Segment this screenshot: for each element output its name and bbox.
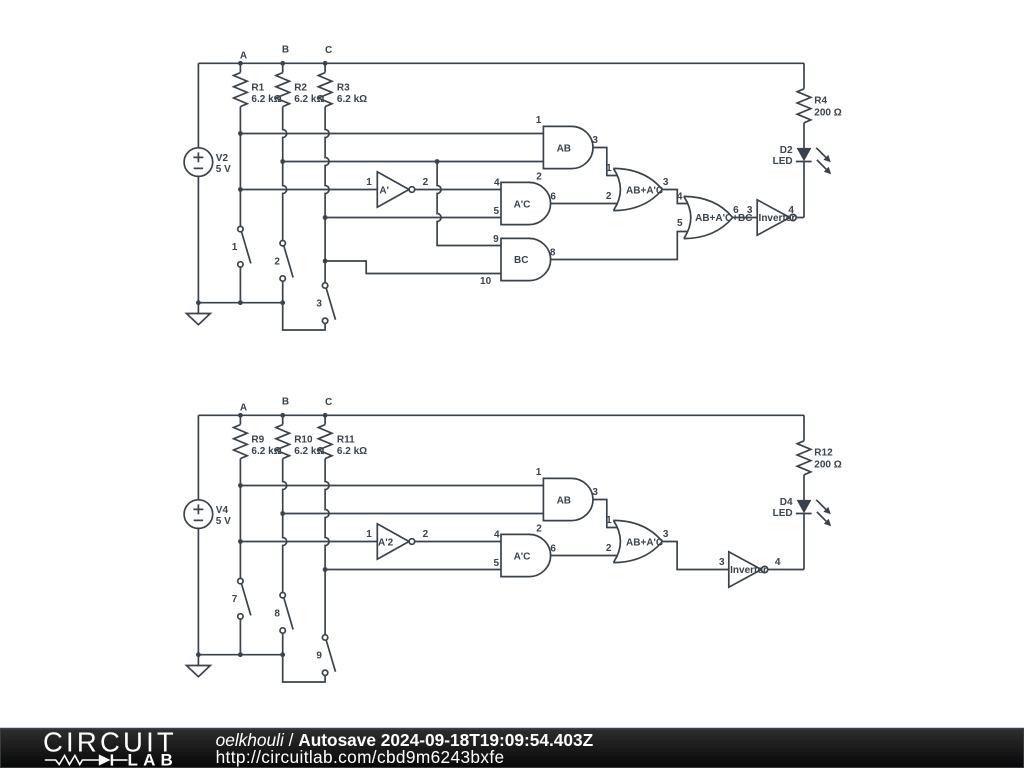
wire ground jog to switch 9 (283, 655, 325, 682)
LED emission arrow 2 (817, 512, 831, 526)
node B junction on rail (280, 413, 285, 418)
wire column C (node C) down with hops (325, 459, 329, 635)
wire node C to A'C input 5 (325, 569, 501, 571)
wire node A to inverter input (240, 189, 377, 191)
node C junction on rail (323, 413, 328, 418)
svg-text:6: 6 (733, 205, 739, 216)
resistor R3 6.2 kΩ (318, 73, 332, 107)
wire column A (node A) down (239, 107, 241, 227)
LED emission arrow 1 (816, 148, 831, 163)
svg-text:6.2 kΩ: 6.2 kΩ (337, 446, 367, 457)
wire LED cathode down to inverter output (803, 162, 805, 218)
junction switch 1 to ground (238, 300, 243, 305)
svg-text:2: 2 (536, 171, 542, 182)
svg-text:A: A (240, 51, 247, 62)
svg-text:AB+A'C: AB+A'C (626, 538, 663, 549)
svg-text:R3: R3 (337, 82, 350, 93)
inverter A&#39;2 bubble (409, 539, 415, 545)
voltage source V2 5 V (184, 148, 213, 177)
svg-text:3: 3 (316, 299, 322, 310)
ground symbol (187, 303, 211, 325)
wire switch 8 to ground (282, 633, 284, 655)
wire rail to R12 (803, 415, 805, 441)
svg-text:AB+A'C: AB+A'C (626, 186, 663, 197)
svg-text:LAB: LAB (128, 750, 179, 768)
node C junction on rail (323, 61, 328, 66)
svg-text:4: 4 (677, 192, 683, 203)
wire node A to AND gate input 1 (240, 133, 543, 135)
AND gate U-AB (543, 478, 593, 520)
svg-text:AB: AB (557, 495, 571, 506)
junction switch 2 to ground (280, 300, 285, 305)
svg-text:9: 9 (316, 651, 322, 662)
node B junction on rail (280, 61, 285, 66)
switch 1 (node A) (238, 226, 251, 267)
wire VCC top rail (198, 62, 804, 64)
output inverter (Inverter) (729, 552, 762, 587)
svg-text:7: 7 (232, 594, 238, 605)
wire node A to AND gate input 1 (240, 485, 543, 487)
svg-text:10: 10 (480, 276, 492, 287)
svg-text:2: 2 (423, 529, 429, 540)
svg-text:5 V: 5 V (216, 164, 231, 175)
switch 8 (node B) (280, 593, 293, 634)
svg-text:1: 1 (606, 515, 612, 526)
output inverter bubble (790, 214, 796, 220)
svg-text:6: 6 (550, 543, 556, 554)
svg-text:4: 4 (788, 205, 794, 216)
junction node B to AND input line (280, 511, 285, 516)
node A junction on rail (238, 61, 243, 66)
AND gate U-A'C (501, 534, 551, 576)
svg-text:LED: LED (773, 508, 793, 519)
svg-text:4: 4 (494, 178, 500, 189)
svg-text:4: 4 (494, 530, 500, 541)
svg-text:2: 2 (606, 543, 612, 554)
wire rail to R2 (282, 63, 284, 72)
wire OR output to output inverter (662, 542, 729, 570)
svg-text:5 V: 5 V (216, 516, 231, 527)
resistor R1 6.2 kΩ (234, 73, 248, 107)
svg-text:3: 3 (663, 177, 669, 188)
wire node C to A'C input 5 (325, 217, 501, 219)
footer bar background (0, 729, 1024, 768)
OR gate U-OR1 (613, 520, 662, 562)
svg-text:R4: R4 (814, 95, 827, 106)
resistor R11 6.2 kΩ (318, 425, 332, 459)
svg-text:5: 5 (494, 558, 500, 569)
svg-text:V4: V4 (216, 505, 229, 516)
wire switch 1 to ground (239, 267, 241, 303)
ground rail wire (198, 654, 282, 656)
wire rail to R9 (239, 415, 241, 424)
wire inverter output to A'C input 4 (415, 189, 501, 191)
inverter A&#39; (377, 172, 409, 207)
junction node A to inverter line (238, 187, 243, 192)
AND gate U-AB (543, 126, 593, 168)
svg-text:200 Ω: 200 Ω (814, 107, 841, 118)
svg-text:3: 3 (592, 135, 598, 146)
wire node B branch down to BC input 9 (437, 162, 501, 246)
svg-text:5: 5 (677, 218, 683, 229)
wire rail to R11 (324, 415, 326, 424)
svg-text:Inverter: Inverter (730, 565, 767, 576)
wire V4 - to ground rail (197, 528, 199, 654)
LED emission arrow 1 (816, 500, 831, 515)
wire rail to R3 (324, 63, 326, 72)
wire R4 to LED D2 (803, 123, 805, 148)
junction node C to A'C input line (323, 215, 328, 220)
wire A'C output to OR input 2 (551, 203, 618, 205)
junction switch 2 to ground (280, 652, 285, 657)
wire AB output to OR input 1 (593, 500, 618, 528)
wire BC output to OR2 input 5 (551, 232, 688, 260)
resistor R2 6.2 kΩ (276, 73, 290, 107)
resistor R9 6.2 kΩ (234, 425, 248, 459)
wire column B (node B) down with hops (283, 107, 287, 241)
output inverter (Inverter) (757, 200, 790, 235)
svg-text:2: 2 (606, 191, 612, 202)
svg-text:D2: D2 (780, 145, 793, 156)
svg-text:R1: R1 (251, 82, 264, 93)
svg-text:3: 3 (719, 557, 725, 568)
wire rail to V4 + (197, 415, 199, 500)
svg-text:A'2: A'2 (378, 537, 394, 548)
svg-text:3: 3 (592, 487, 598, 498)
svg-text:R10: R10 (294, 434, 313, 445)
svg-text:A: A (240, 403, 247, 414)
resistor R10 6.2 kΩ (276, 425, 290, 459)
svg-text:9: 9 (493, 234, 499, 245)
junction at ground/source (196, 652, 201, 657)
wire node C to BC input 10 (325, 261, 501, 274)
svg-text:1: 1 (536, 467, 542, 478)
wire A'C output to OR input 2 (551, 555, 618, 557)
svg-text:6: 6 (550, 191, 556, 202)
LED D2 (796, 148, 812, 162)
wire column C (node C) down with hops (325, 107, 329, 283)
switch 9 (node C) (322, 635, 335, 676)
svg-text:4: 4 (775, 557, 781, 568)
wire rail to R1 (239, 63, 241, 72)
svg-text:B: B (282, 396, 289, 407)
svg-text:A'C: A'C (514, 200, 531, 211)
wire inverter output to LED cathode (768, 569, 804, 571)
ground symbol (187, 655, 211, 677)
LED emission arrow 2 (817, 160, 831, 174)
inverter A&#39; bubble (409, 187, 415, 193)
junction at ground/source (196, 300, 201, 305)
svg-text:6.2 kΩ: 6.2 kΩ (251, 94, 281, 105)
svg-text:http://circuitlab.com/cbd9m624: http://circuitlab.com/cbd9m6243bxfe (216, 747, 505, 767)
svg-text:AB: AB (557, 143, 571, 154)
svg-text:BC: BC (514, 255, 528, 266)
wire ground jog to switch 3 (283, 303, 325, 330)
svg-text:6.2 kΩ: 6.2 kΩ (251, 446, 281, 457)
svg-text:R12: R12 (814, 447, 833, 458)
svg-text:1: 1 (536, 115, 542, 126)
wire inverter output to A'C input 4 (415, 541, 501, 543)
wire inverter output to LED cathode (796, 217, 804, 219)
svg-text:5: 5 (494, 206, 500, 217)
svg-text:R2: R2 (294, 82, 307, 93)
svg-text:R9: R9 (251, 434, 264, 445)
svg-text:V2: V2 (216, 153, 229, 164)
wire LED cathode down to inverter output (803, 514, 805, 570)
switch 3 (node C) (322, 283, 335, 324)
svg-text:2: 2 (274, 257, 280, 268)
wire node A to inverter input (240, 541, 377, 543)
junction node C to BC line (323, 259, 328, 264)
svg-text:8: 8 (550, 248, 556, 259)
svg-text:AB+A'C+BC: AB+A'C+BC (695, 213, 752, 224)
svg-text:1: 1 (232, 242, 238, 253)
resistor R12 200 Ω (797, 441, 811, 475)
wire switch 7 to ground (239, 619, 241, 655)
svg-text:1: 1 (366, 177, 372, 188)
junction node A to AND input line (238, 483, 243, 488)
voltage source V4 5 V (184, 500, 213, 529)
junction node A to inverter line (238, 539, 243, 544)
svg-text:A'C: A'C (514, 552, 531, 563)
wire column A (node A) down (239, 459, 241, 579)
AND gate U-BC (501, 238, 551, 280)
svg-text:2: 2 (423, 177, 429, 188)
junction node B branch (435, 159, 440, 164)
output inverter bubble (761, 566, 767, 572)
svg-text:A': A' (379, 185, 389, 196)
ground rail wire (198, 302, 282, 304)
wire OR2 output to output inverter (733, 217, 758, 219)
svg-text:2: 2 (536, 523, 542, 534)
CircuitLab logo resistor-diode glyph (45, 754, 128, 765)
wire rail to R10 (282, 415, 284, 424)
svg-text:6.2 kΩ: 6.2 kΩ (337, 94, 367, 105)
resistor R4 200 Ω (797, 89, 811, 123)
wire column B (node B) down with hops (283, 459, 287, 593)
wire node B to AND gate input 2 (283, 161, 544, 163)
svg-text:R11: R11 (337, 434, 355, 445)
junction node B to AND input line (280, 159, 285, 164)
wire AB output to OR input 1 (593, 148, 618, 176)
svg-text:B: B (282, 44, 289, 55)
svg-text:C: C (325, 397, 332, 408)
wire rail to V2 + (197, 63, 199, 148)
junction switch 1 to ground (238, 652, 243, 657)
svg-text:200 Ω: 200 Ω (814, 459, 841, 470)
wire OR1 output to OR2 input 4 (662, 190, 688, 204)
wire switch 2 to ground (282, 281, 284, 303)
inverter A&#39;2 (377, 524, 409, 559)
wire VCC top rail (198, 414, 804, 416)
svg-text:3: 3 (663, 529, 669, 540)
OR gate U-OR1 (613, 168, 662, 210)
svg-text:1: 1 (366, 529, 372, 540)
svg-text:8: 8 (274, 609, 280, 620)
node A junction on rail (238, 413, 243, 418)
svg-text:LED: LED (773, 156, 793, 167)
LED D4 (796, 500, 812, 514)
svg-text:1: 1 (606, 163, 612, 174)
switch 7 (node A) (238, 578, 251, 619)
wire node B to AND gate input 2 (283, 513, 544, 515)
svg-text:C: C (325, 45, 332, 56)
switch 2 (node B) (280, 241, 293, 282)
svg-text:D4: D4 (780, 497, 793, 508)
svg-text:3: 3 (747, 205, 753, 216)
AND gate U-A'C (501, 182, 551, 224)
wire R12 to LED D4 (803, 475, 805, 500)
wire rail to R4 (803, 63, 805, 89)
wire V2 - to ground rail (197, 176, 199, 302)
junction node A to AND input line (238, 131, 243, 136)
junction node C to A'C input line (323, 567, 328, 572)
OR gate U-OR2 (684, 196, 733, 238)
